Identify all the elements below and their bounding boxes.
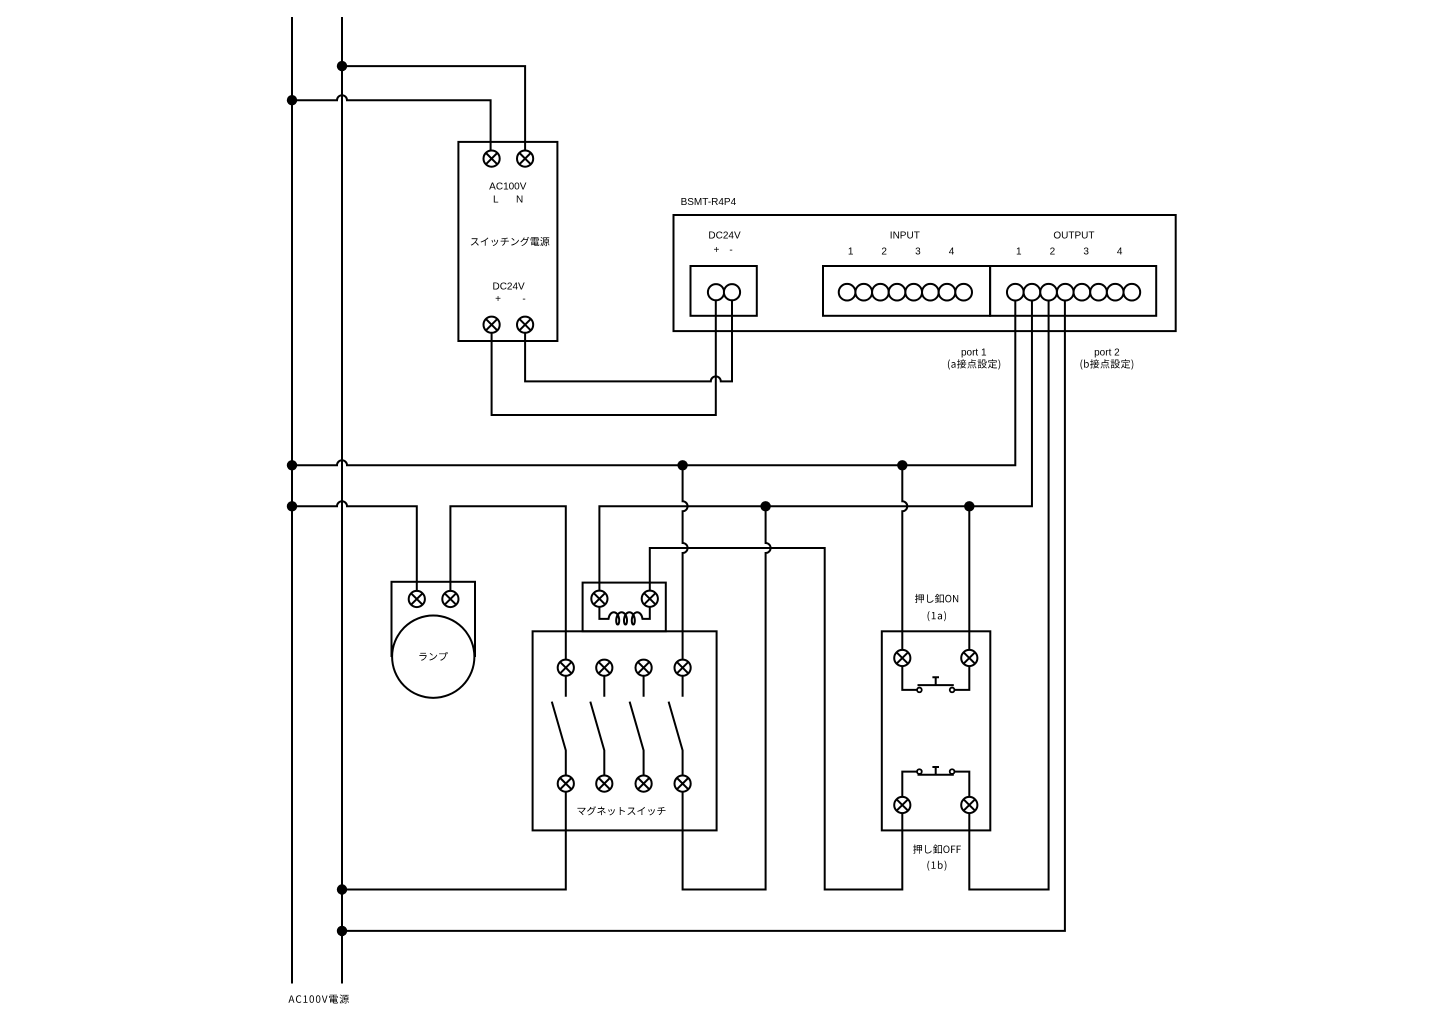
svg-text:4: 4 bbox=[949, 246, 955, 257]
svg-text:-: - bbox=[522, 294, 525, 305]
svg-text:4: 4 bbox=[1117, 246, 1123, 257]
svg-text:3: 3 bbox=[1083, 246, 1089, 257]
svg-text:port 2: port 2 bbox=[1094, 347, 1120, 358]
svg-text:1: 1 bbox=[1016, 246, 1022, 257]
svg-text:BSMT-R4P4: BSMT-R4P4 bbox=[681, 197, 737, 208]
svg-text:L: L bbox=[493, 195, 499, 206]
svg-text:1: 1 bbox=[848, 246, 854, 257]
svg-text:DC24V: DC24V bbox=[492, 282, 525, 293]
svg-text:2: 2 bbox=[1050, 246, 1056, 257]
svg-text:+: + bbox=[713, 245, 719, 256]
svg-text:-: - bbox=[729, 245, 732, 256]
svg-text:port 1: port 1 bbox=[961, 347, 987, 358]
svg-text:N: N bbox=[516, 195, 523, 206]
svg-text:INPUT: INPUT bbox=[890, 231, 920, 242]
svg-text:DC24V: DC24V bbox=[708, 231, 741, 242]
svg-text:OUTPUT: OUTPUT bbox=[1053, 231, 1094, 242]
svg-text:3: 3 bbox=[915, 246, 921, 257]
svg-text:+: + bbox=[495, 294, 501, 305]
svg-text:AC100V: AC100V bbox=[489, 181, 527, 192]
svg-text:2: 2 bbox=[881, 246, 887, 257]
